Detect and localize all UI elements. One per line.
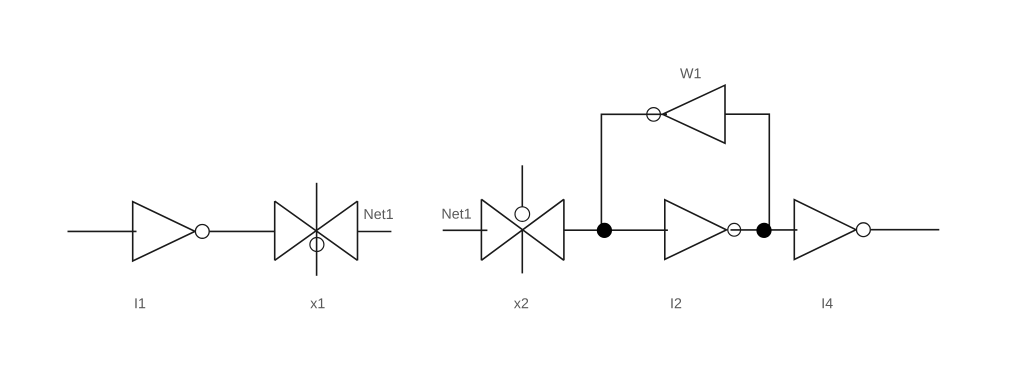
label I1 [135,298,145,308]
inverter I1 [133,202,210,261]
transmission gate x1 [275,183,358,276]
wire: feedback from W1 output down to node [601,114,667,230]
wire: I4 output [871,229,940,231]
inverter I4 [794,200,870,260]
label I2 [671,298,681,308]
junction node: x2/I2/W1-output [597,223,612,238]
transmission gate x2 [481,165,564,273]
label x2 [514,298,528,308]
wire: Net1 input to x2 [443,229,488,231]
wire: I1 output to x1 [210,230,275,232]
label Net1 (left) [365,209,393,219]
label W1 [680,68,701,78]
wire: x1 output (Net1) [358,231,392,233]
wire: input to I1 [68,230,137,232]
label Net1 (right) [443,209,471,219]
junction node: I2-output/W1-input [756,223,771,238]
inverter W1 [647,85,725,143]
label x1 [310,298,324,308]
wire: x2 output to I2 input [564,229,668,231]
inverter I2 [665,200,741,260]
wire: W1 input from node after I2 [725,114,769,230]
wire: I2 output to I4 input [731,229,798,231]
label I4 [823,298,833,308]
